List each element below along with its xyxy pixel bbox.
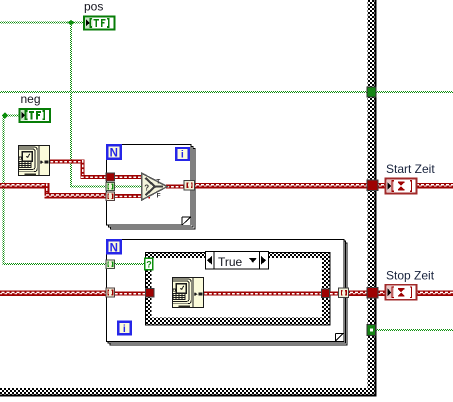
svg-text:?: ? [144,184,149,193]
svg-text:?: ? [146,260,152,270]
svg-text:i: i [181,149,184,161]
svg-text:N: N [110,242,118,254]
svg-text:Start Zeit: Start Zeit [386,162,435,176]
svg-text:T: T [156,178,160,185]
svg-text:neg: neg [21,92,41,106]
svg-text:Stop Zeit: Stop Zeit [386,268,435,282]
svg-text:i: i [123,323,126,335]
svg-text:F: F [157,193,161,200]
svg-text:True: True [218,255,243,269]
svg-text:N: N [110,148,118,160]
svg-text:pos: pos [84,0,103,13]
